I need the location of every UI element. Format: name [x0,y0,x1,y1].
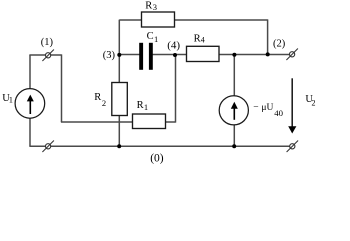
wire: C1 to node(4) to R4 [153,54,187,56]
node 3 junction dot [117,53,121,57]
source U1 [15,89,45,119]
svg-text:40: 40 [274,108,283,118]
wire: vertical from corner down to R1 row [61,54,63,122]
wire: R2 bottom to rail [118,116,120,147]
terminal bottom-right [287,141,299,153]
wire: R4 right to terminal(2) [219,54,290,56]
svg-text:1: 1 [9,95,13,105]
svg-text:R: R [194,33,201,44]
svg-text:(4): (4) [167,40,180,52]
svg-text:2: 2 [312,99,316,108]
wire: R1 right to vertical [166,121,176,123]
terminal (2) [286,49,298,61]
svg-text:R: R [137,100,144,111]
svg-text:3: 3 [153,2,157,12]
wire: horizontal into R1 left [61,121,133,123]
svg-text:R: R [145,0,152,11]
wire: U1 bottom lead down [29,118,31,146]
svg-text:C: C [147,31,154,42]
svg-text:(2): (2) [273,38,286,49]
wire: vertical up to node(4) [175,55,177,123]
resistor R4 [187,46,220,61]
wire: current source bottom lead [233,125,235,147]
wire: node(1) horizontal to corner [29,54,61,56]
svg-text:(1): (1) [41,37,54,48]
wire: bottom rail (0) [29,145,290,147]
svg-text:−: − [253,103,258,113]
svg-text:4: 4 [201,35,205,44]
wire: R3 right along top [175,19,268,21]
wire: current source top lead [233,55,235,97]
junction dot bottom current source [232,144,236,148]
svg-text:(0): (0) [150,152,164,164]
junction dot at current source top [232,53,236,57]
arrow U2 [291,78,293,127]
capacitor C1 left plate [139,43,143,70]
wire: node(3) vertical top segment [118,20,120,83]
svg-text:μU: μU [261,103,273,113]
svg-text:1: 1 [144,102,148,112]
terminal bottom-left [42,141,54,153]
wire: top loop left to R3 [119,19,141,21]
controlled current source -muU40 [219,96,248,125]
terminal (1) [42,50,54,62]
resistor R2 [112,83,128,116]
svg-text:2: 2 [102,98,106,108]
node 4 junction dot [173,53,177,57]
capacitor C1 right plate [149,43,153,70]
svg-text:R: R [94,92,101,103]
node 2 junction dot [266,52,270,56]
svg-text:1: 1 [154,34,158,44]
resistor R1 [133,114,166,129]
wire: top loop right vertical down to node(2) [267,19,269,54]
wire: node(3) to C1 [119,54,139,56]
junction dot bottom R2 [117,144,121,148]
svg-text:(3): (3) [103,50,116,61]
resistor R3 [142,12,175,27]
wire: U1 top lead up [29,55,31,89]
